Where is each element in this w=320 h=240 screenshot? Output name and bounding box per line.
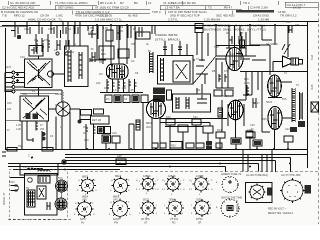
svg-text:AVC: AVC xyxy=(222,95,227,98)
svg-text:50C5: 50C5 xyxy=(143,199,150,202)
svg-text:R20: R20 xyxy=(171,145,176,148)
svg-text:470K: 470K xyxy=(244,82,250,85)
svg-text:47K: 47K xyxy=(44,39,49,42)
svg-text:47K: 47K xyxy=(224,70,229,73)
svg-text:L2: L2 xyxy=(148,1,152,5)
svg-text:RC: RC xyxy=(172,222,176,225)
svg-text:1M: 1M xyxy=(106,98,109,101)
svg-text:U6K: U6K xyxy=(82,199,87,202)
svg-text:SMYCE THE TIME: SMYCE THE TIME xyxy=(221,197,242,200)
svg-text:12AV6: 12AV6 xyxy=(196,175,204,178)
svg-text:C: C xyxy=(28,155,30,158)
svg-text:T B: T B xyxy=(2,14,7,18)
svg-text:SP: SP xyxy=(198,222,202,225)
svg-text:22K: 22K xyxy=(96,82,101,85)
svg-text:6BE6: 6BE6 xyxy=(82,176,89,179)
svg-text:1.25 MM B4: 1.25 MM B4 xyxy=(204,18,221,22)
svg-text:1.6 148 54KC C7 1L: 1.6 148 54KC C7 1L xyxy=(95,18,123,22)
svg-text:1.25 MB: 1.25 MB xyxy=(258,18,269,22)
svg-text:R10: R10 xyxy=(244,78,249,81)
svg-text:220: 220 xyxy=(7,108,12,111)
svg-text:TR GRN 2.2: TR GRN 2.2 xyxy=(280,14,297,18)
svg-text:AMAL CO AO-O+OK . T.L.: AMAL CO AO-O+OK . T.L. xyxy=(28,18,63,22)
svg-text:R7: R7 xyxy=(120,1,124,5)
svg-text:PW: PW xyxy=(114,222,119,225)
svg-text:U4T: U4T xyxy=(113,199,118,202)
svg-text:.05: .05 xyxy=(130,89,134,92)
svg-text:V1 12BE6 CONV R2 1M: V1 12BE6 CONV R2 1M xyxy=(163,1,196,5)
svg-text:SP. SMKR.: SP. SMKR. xyxy=(266,43,279,46)
svg-text:SET GANG: SET GANG xyxy=(58,6,74,10)
svg-text:12BA6: 12BA6 xyxy=(168,175,176,178)
svg-text:1M: 1M xyxy=(83,132,86,135)
svg-text:1X 58: 1X 58 xyxy=(293,6,301,10)
svg-text:1M: 1M xyxy=(99,73,102,76)
svg-text:C1A: C1A xyxy=(24,28,29,31)
svg-text:SEC: SEC xyxy=(101,53,106,56)
svg-text:C22: C22 xyxy=(285,128,290,131)
svg-text:C20: C20 xyxy=(286,21,291,24)
svg-text:OT: OT xyxy=(144,222,148,225)
svg-text:12BE6: 12BE6 xyxy=(143,175,151,178)
svg-text:BUSTNESS. SMAL. MODEL. (1TYL./: BUSTNESS. SMAL. MODEL. (1TYL./TTL2) xyxy=(204,28,266,32)
svg-text:MODEL 1T: MODEL 1T xyxy=(236,199,239,212)
svg-text:50C5: 50C5 xyxy=(266,101,273,104)
svg-text:T3: T3 xyxy=(208,6,212,10)
svg-text:C15: C15 xyxy=(84,139,89,142)
svg-text:C1B: C1B xyxy=(48,28,53,31)
svg-text:1.5K: 1.5K xyxy=(103,27,108,30)
svg-text:BENETTES. VERSA A.: BENETTES. VERSA A. xyxy=(268,212,294,215)
svg-text:VOL: VOL xyxy=(83,126,89,129)
svg-text:AVC: AVC xyxy=(146,126,151,129)
svg-text:220: 220 xyxy=(122,87,127,90)
svg-text:C1C: C1C xyxy=(20,56,25,59)
svg-text:R14: R14 xyxy=(217,129,222,132)
svg-text:1.5: 1.5 xyxy=(113,89,117,92)
svg-text:MFD 12: MFD 12 xyxy=(14,14,25,18)
svg-text:R5 1.2 AL 6: R5 1.2 AL 6 xyxy=(100,1,116,5)
svg-text:2.2K: 2.2K xyxy=(16,128,21,131)
svg-text:C1 .05 400 C4 22K: C1 .05 400 C4 22K xyxy=(10,1,36,5)
svg-text:DET 1M: DET 1M xyxy=(92,119,101,122)
svg-text:TR: TR xyxy=(26,187,30,190)
svg-text:T1 OSC COIL AL 455KC: T1 OSC COIL AL 455KC xyxy=(55,1,89,5)
svg-text:TOP 4: TOP 4 xyxy=(152,10,161,14)
svg-text:3.3: 3.3 xyxy=(34,39,38,42)
svg-text:GLYH TYPE 30M: GLYH TYPE 30M xyxy=(281,174,300,177)
svg-text:R-39: R-39 xyxy=(311,84,314,90)
svg-text:35Z5: 35Z5 xyxy=(196,199,202,202)
svg-text:BP: BP xyxy=(240,32,244,35)
svg-text:2.2K: 2.2K xyxy=(88,31,93,34)
svg-text:GREEN TUNE YE: GREEN TUNE YE xyxy=(221,173,242,176)
svg-text:C14 R6 2.2M: C14 R6 2.2M xyxy=(250,6,268,10)
svg-text:TR2: TR2 xyxy=(214,46,219,49)
svg-text:R9 47: R9 47 xyxy=(224,6,232,10)
svg-text:B2: B2 xyxy=(134,1,138,5)
svg-text:C17: C17 xyxy=(255,102,260,105)
svg-text:2 STYL: 2 STYL xyxy=(168,18,178,22)
svg-text:5Y3: 5Y3 xyxy=(58,177,63,180)
svg-text:OSRAM. BMTR.: OSRAM. BMTR. xyxy=(155,33,178,37)
svg-text:C25: C25 xyxy=(117,155,122,158)
svg-text:47K: 47K xyxy=(104,87,109,90)
svg-text:GL-300 TUBE REQ: GL-300 TUBE REQ xyxy=(246,174,268,177)
svg-text:AL 455: AL 455 xyxy=(128,14,138,18)
svg-text:115V: 115V xyxy=(9,181,15,184)
svg-text:6V6: 6V6 xyxy=(282,98,287,101)
svg-text:.05: .05 xyxy=(90,48,94,51)
svg-text:35Z5: 35Z5 xyxy=(261,118,267,121)
svg-text:PM 30 W: PM 30 W xyxy=(23,166,34,169)
svg-text:AV: AV xyxy=(81,222,84,225)
svg-text:1.05: 1.05 xyxy=(16,124,21,127)
svg-text:TR 4: TR 4 xyxy=(243,1,250,5)
svg-text:C11: C11 xyxy=(196,89,201,92)
svg-text:C16: C16 xyxy=(112,132,117,135)
svg-text:C19: C19 xyxy=(250,124,255,127)
svg-text:MODEL 1T: MODEL 1T xyxy=(3,192,6,205)
svg-text:5-18: 5-18 xyxy=(311,54,314,60)
svg-text:6BA6: 6BA6 xyxy=(115,175,122,178)
svg-text:35W4: 35W4 xyxy=(169,199,176,202)
svg-text:RED 98 VOLT ~: RED 98 VOLT ~ xyxy=(268,208,286,211)
svg-text:150: 150 xyxy=(40,128,45,131)
svg-text:C5 20: C5 20 xyxy=(100,14,108,18)
svg-text:ANT: ANT xyxy=(6,66,11,69)
svg-text:C30: C30 xyxy=(7,102,12,105)
svg-text:(STYLL. BRACK): (STYLL. BRACK) xyxy=(155,38,180,42)
